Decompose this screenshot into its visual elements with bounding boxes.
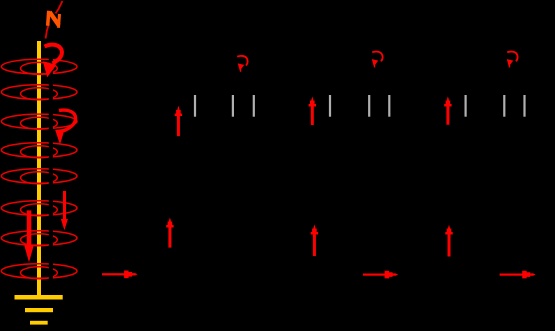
- lightning bolt: [48, 11, 60, 28]
- propagation arrow 3: [500, 271, 536, 279]
- wavefront bar 2c: [388, 95, 390, 117]
- wavefront bar 1c: [253, 95, 255, 117]
- field loop group 8: [1, 264, 77, 279]
- current arrow thick (down): [24, 210, 33, 262]
- E-field arrow low row 1: [166, 217, 173, 247]
- B-rotation arrow 1: [237, 56, 247, 72]
- E-field arrow low row 3: [445, 225, 452, 257]
- E-field arrow top row 2: [309, 96, 316, 125]
- field loop group 6: [1, 201, 77, 216]
- loop gap mask strips: [49, 56, 53, 282]
- rotation arrow mid: [55, 110, 75, 144]
- field loop group 4: [1, 143, 77, 158]
- wavefront bar 3b: [503, 95, 505, 117]
- field loop group 2: [1, 85, 77, 100]
- E-field arrow low row 2: [311, 224, 318, 256]
- wavefront bar 2b: [368, 95, 370, 117]
- E-field arrow top row 1: [175, 106, 182, 137]
- propagation arrow 1: [102, 271, 138, 279]
- lightning stroke line: [56, 1, 63, 14]
- wavefront bar 1a: [194, 95, 196, 117]
- B-rotation arrow 2: [372, 52, 383, 68]
- propagation arrow 2: [363, 271, 398, 279]
- field loop group 3: [1, 114, 77, 129]
- ground symbol: [15, 295, 63, 325]
- field loop group 1: [1, 59, 77, 74]
- wavefront bar 1b: [232, 95, 234, 117]
- E-field arrow top row 3: [444, 96, 451, 124]
- antenna rod: [37, 41, 41, 298]
- wavefront bar 2a: [329, 95, 331, 117]
- current arrow thin (down): [61, 191, 68, 230]
- wavefront bar 3c: [523, 95, 525, 117]
- wavefront bar 3a: [465, 95, 467, 117]
- B-rotation arrow 3: [507, 52, 518, 68]
- field loop group 7: [1, 231, 77, 246]
- field loop group 5: [1, 169, 77, 184]
- rotation arrow top (thick): [43, 45, 62, 78]
